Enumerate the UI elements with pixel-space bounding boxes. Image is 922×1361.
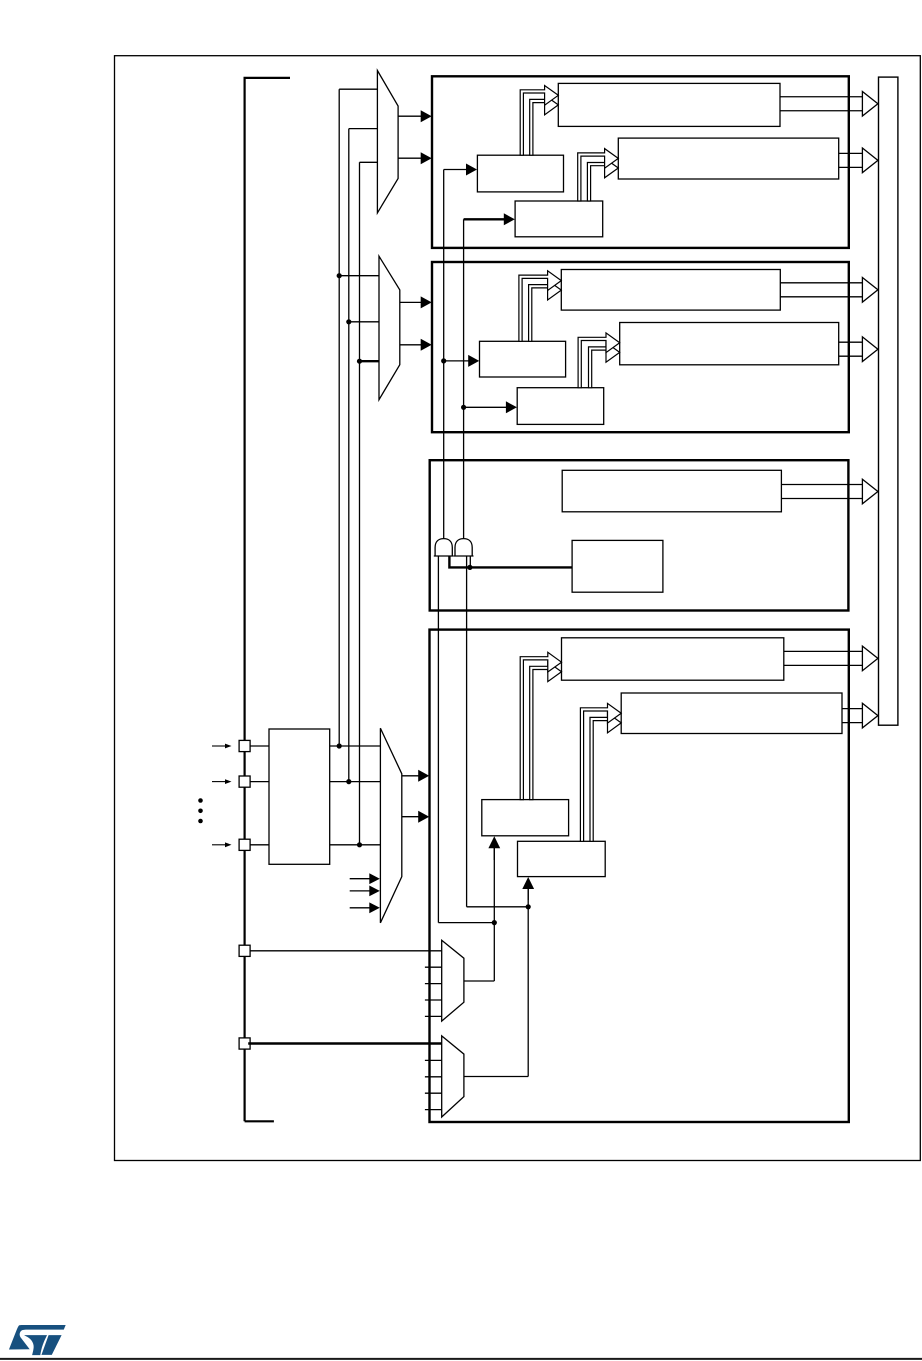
wire: G1 output down bbox=[437, 556, 439, 923]
footer rule bbox=[0, 1358, 922, 1360]
open arrow a4->A4 (1) bbox=[520, 652, 561, 799]
pin square SQ4 bbox=[239, 945, 250, 956]
wire: mux2 input 3 (bold) bbox=[360, 360, 380, 362]
arrow mux1->block1 (1) bbox=[398, 110, 432, 122]
open arrow b4->B4 (2) bbox=[590, 713, 621, 841]
wire: riser to b4 bbox=[527, 888, 529, 1077]
open bus arrow A4->bus bbox=[784, 646, 878, 671]
mux M3 bbox=[380, 728, 401, 923]
open arrow a1->A1 (2) bbox=[530, 95, 559, 155]
open bus arrow B1->bus bbox=[839, 148, 878, 173]
wire: muxA output bbox=[464, 980, 494, 982]
gate G2 bbox=[454, 539, 474, 556]
box b4 bbox=[518, 841, 606, 876]
mux M1 bbox=[377, 71, 398, 213]
pin square SQ1 bbox=[239, 740, 250, 751]
input block bbox=[269, 729, 330, 864]
muxB input tick bbox=[425, 1076, 442, 1078]
mux3 aux input 1 bbox=[350, 873, 380, 884]
wire: bus top stub bbox=[244, 77, 291, 79]
wire: mux1 input 2 bbox=[349, 128, 378, 130]
wire: G1 -> box3 (bold) bbox=[449, 556, 572, 567]
open arrow a2->A2 (2) bbox=[529, 280, 562, 341]
junction V5/b2 bbox=[461, 405, 466, 410]
muxB input tick bbox=[425, 1092, 442, 1094]
arrow mux3->block4 (2) bbox=[402, 811, 429, 823]
box b2 bbox=[517, 388, 604, 425]
box a4 bbox=[482, 800, 569, 836]
muxA input tick bbox=[425, 999, 442, 1001]
junction V3/mux2 bbox=[357, 359, 362, 364]
wire: net V1 bbox=[338, 89, 340, 746]
mux3 aux input 3 bbox=[350, 902, 380, 913]
open arrow b4->B4 (1) bbox=[580, 703, 621, 841]
mux MB bbox=[442, 1036, 464, 1117]
open arrow a2->A2 (1) bbox=[519, 271, 561, 342]
wire: G2 output right bbox=[467, 906, 529, 908]
open arrow a1->A1 (1) bbox=[520, 86, 558, 156]
junction V2 tap bbox=[346, 779, 351, 784]
wire: pin2 to input block bbox=[250, 781, 269, 783]
wire: mux2 input 2 bbox=[349, 321, 379, 323]
open arrow b1->B1 (2) bbox=[587, 158, 618, 201]
open arrow b1->B1 (1) bbox=[578, 149, 619, 201]
mux M2 bbox=[379, 256, 400, 400]
wire: riser to a4 bbox=[493, 847, 495, 981]
wire: net V3 bbox=[359, 162, 361, 845]
wire: bus bottom stub bbox=[245, 1120, 274, 1122]
junction V1 tap bbox=[337, 743, 342, 748]
wire: mux1 input 1 bbox=[339, 88, 377, 90]
block 4 frame bbox=[430, 630, 849, 1122]
junction V4/a2 bbox=[441, 358, 446, 363]
box 3 bbox=[572, 540, 663, 592]
box b1 bbox=[515, 201, 603, 237]
ellipsis dot 2 bbox=[198, 809, 203, 814]
muxA input tick bbox=[425, 983, 442, 985]
open arrow b2->B2 (2) bbox=[589, 343, 620, 388]
arrow mux2->block2 (2) bbox=[400, 339, 432, 351]
arrow mux3->block4 (1) bbox=[402, 770, 429, 782]
wire: net V5 bbox=[463, 219, 465, 540]
wire: mux1 input 3 bbox=[360, 161, 378, 163]
arrow into b1 (bold) bbox=[464, 213, 515, 225]
figure border bbox=[115, 56, 921, 1161]
open arrow b2->B2 (1) bbox=[578, 333, 620, 388]
pin square SQ3 bbox=[239, 839, 250, 850]
wire: mux2 input 1 bbox=[339, 275, 379, 277]
mux MA bbox=[442, 940, 464, 1021]
input arrow to SQ2 bbox=[212, 779, 232, 784]
pin square SQ5 bbox=[239, 1038, 250, 1049]
wire: G2 output down bbox=[466, 556, 468, 907]
arrow into a2 bbox=[444, 355, 480, 367]
register A2 bbox=[561, 270, 780, 311]
ST logo bbox=[9, 1325, 66, 1355]
open bus arrow A2->bus bbox=[780, 278, 878, 303]
block 2 frame bbox=[432, 262, 849, 432]
register A3 bbox=[562, 470, 781, 512]
ellipsis dot 1 bbox=[198, 798, 203, 803]
ellipsis dot 3 bbox=[198, 819, 203, 824]
junction G2/riser b4 bbox=[526, 904, 531, 909]
junction V3 tap bbox=[357, 842, 362, 847]
open bus arrow B4->bus bbox=[842, 703, 878, 728]
box a1 bbox=[477, 155, 563, 192]
register A1 bbox=[558, 83, 780, 126]
wire: G1 output right bbox=[438, 922, 494, 924]
arrow up into a4 bbox=[488, 836, 500, 860]
open bus arrow A3->bus bbox=[781, 479, 878, 504]
arrow up into b4 bbox=[522, 877, 534, 900]
wire: muxB output bbox=[464, 1076, 528, 1078]
arrow mux2->block2 (1) bbox=[400, 296, 432, 308]
wire: pin3 to input block bbox=[250, 844, 269, 846]
junction V2/mux2 bbox=[346, 319, 351, 324]
muxA input tick bbox=[425, 1015, 442, 1017]
register B4 bbox=[621, 693, 842, 734]
wire: G2 stub to box3 line bbox=[469, 556, 471, 567]
junction G1/riser a4 bbox=[492, 920, 497, 925]
input arrow to SQ1 bbox=[212, 744, 232, 749]
wire: trigger bus vertical bbox=[244, 78, 246, 1121]
mux3 aux input 2 bbox=[350, 886, 380, 897]
register B2 bbox=[620, 323, 839, 365]
open bus arrow A1->bus bbox=[780, 91, 878, 116]
wire: input block out 2 to mux3 bbox=[330, 781, 381, 783]
junction V1/mux2 bbox=[337, 273, 342, 278]
gate G1 bbox=[434, 539, 454, 556]
wire: input block out 3 to mux3 bbox=[330, 844, 381, 846]
muxB input tick bbox=[425, 1109, 442, 1111]
pin square SQ2 bbox=[239, 776, 250, 787]
wire: net V4 bbox=[443, 170, 445, 540]
muxA input tick bbox=[425, 966, 442, 968]
open arrow a4->A4 (2) bbox=[530, 662, 562, 800]
wire: pin1 to input block bbox=[250, 745, 269, 747]
arrow into a1 bbox=[444, 164, 477, 176]
muxB input tick bbox=[425, 1059, 442, 1061]
register B1 bbox=[618, 138, 838, 179]
input arrow to SQ3 bbox=[212, 842, 232, 847]
bus: output bus (right) bbox=[879, 77, 898, 725]
block 1 frame bbox=[432, 76, 849, 248]
junction G2/box3 line bbox=[467, 565, 472, 570]
box a2 bbox=[480, 341, 566, 377]
arrow mux1->block1 (2) bbox=[398, 152, 432, 164]
wire: net V2 bbox=[348, 129, 350, 782]
open bus arrow B2->bus bbox=[839, 337, 878, 362]
wire: SQ4 to muxA bbox=[250, 950, 442, 952]
wire: input block out 1 to mux3 bbox=[330, 745, 381, 747]
wire: SQ5 to muxB (bold) bbox=[248, 1042, 442, 1044]
arrow into b2 bbox=[464, 401, 517, 413]
register A4 bbox=[562, 638, 784, 680]
block 3 frame bbox=[430, 460, 849, 610]
